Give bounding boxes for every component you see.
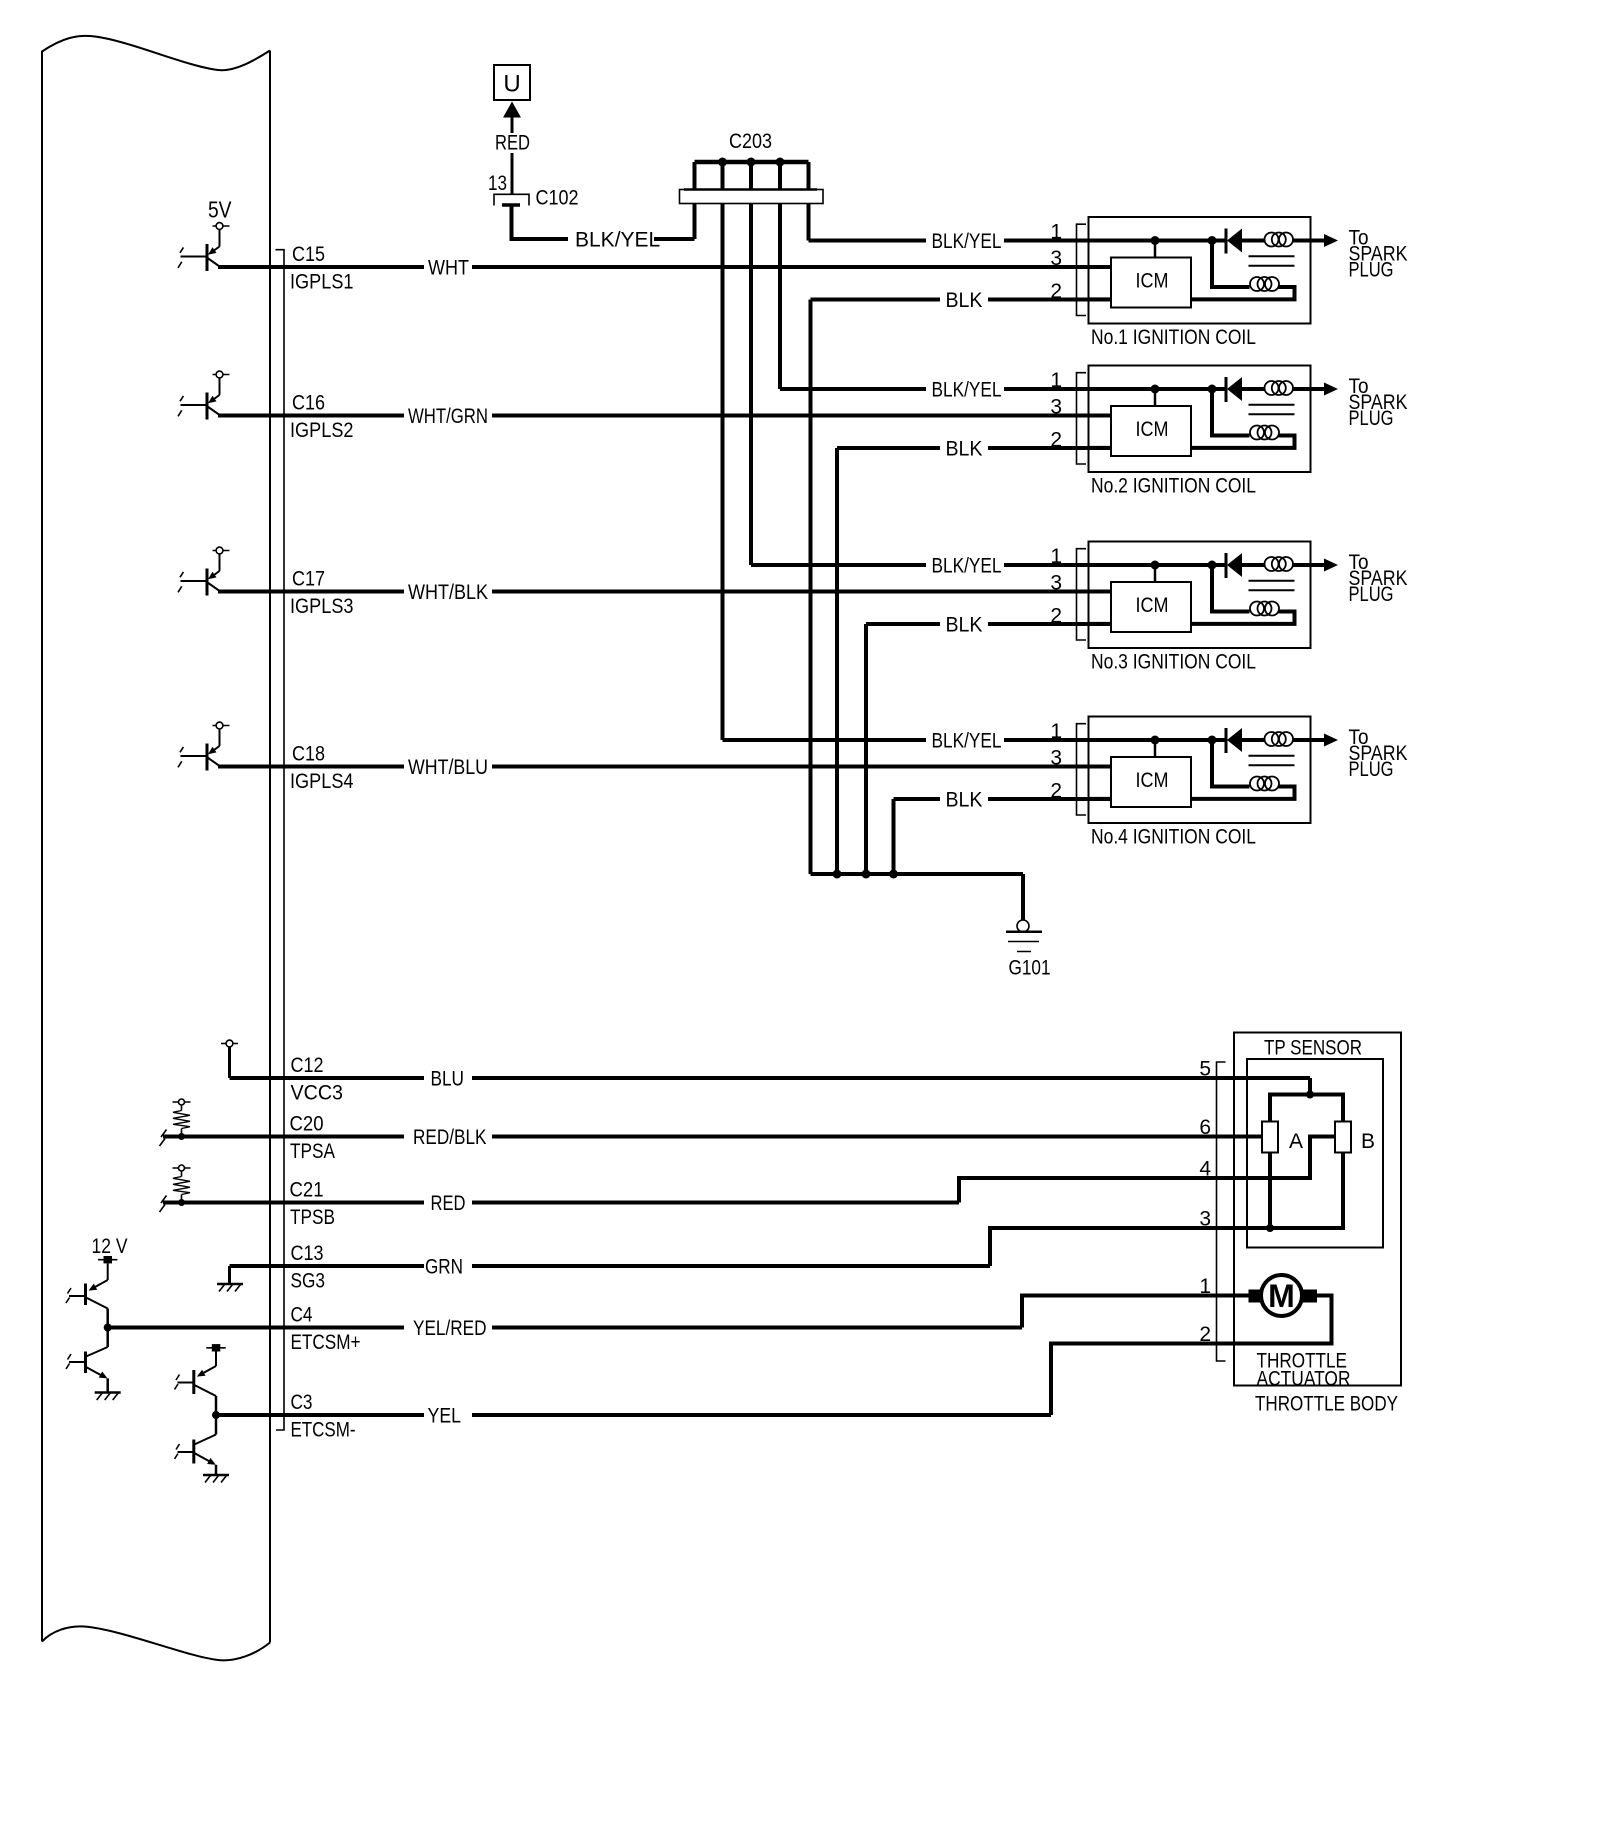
svg-text:6: 6	[1199, 1116, 1211, 1139]
wire BLK from No.3 coil pin 2	[866, 622, 940, 626]
wire WHT/BLK (C17 IGPLS3)	[218, 590, 404, 594]
transistor Q2 (IGPLS2 driver)	[178, 371, 230, 419]
wire WHT/GRN (C16 IGPLS2)	[218, 414, 404, 418]
transistor Q4 (IGPLS4 driver)	[178, 722, 230, 770]
wire BLK/YEL from C102 to C203	[512, 207, 569, 240]
wire feeder to No.2 coil	[778, 162, 782, 389]
svg-text:BLU: BLU	[431, 1068, 465, 1091]
svg-text:BLK: BLK	[946, 438, 983, 461]
svg-text:WHT/BLU: WHT/BLU	[408, 756, 488, 779]
wire BLK from No.1 coil pin 2	[811, 298, 941, 302]
throttle body outer box	[1234, 1033, 1401, 1386]
wire BLK/YEL to No.4 coil pin 1	[723, 738, 927, 742]
svg-text:C16: C16	[292, 392, 325, 415]
svg-text:BLK: BLK	[946, 614, 983, 637]
wire YEL (C3 ETCSM-)	[216, 1413, 424, 1417]
transistor Q6 (ETCSM+ low side)	[106, 1328, 109, 1348]
wire feeder to No.3 coil	[749, 162, 753, 565]
svg-text:C17: C17	[292, 568, 325, 591]
svg-text:WHT/GRN: WHT/GRN	[408, 405, 488, 428]
svg-text:1: 1	[1199, 1275, 1211, 1298]
wire RED (C21 TPSB)	[163, 1201, 424, 1205]
svg-text:RED: RED	[431, 1192, 466, 1215]
svg-text:M: M	[1268, 1278, 1295, 1314]
wire RED from U arrow	[511, 116, 514, 133]
BLK ground bus	[811, 872, 1024, 876]
svg-text:G101: G101	[1009, 957, 1051, 980]
transistor Q8 (ETCSM- low side)	[215, 1415, 218, 1435]
wire BLK/YEL to No.3 coil pin 1	[751, 563, 926, 567]
svg-text:C21: C21	[290, 1179, 324, 1202]
wire feeder to No.1 coil	[807, 162, 811, 241]
svg-text:BLK/YEL: BLK/YEL	[932, 379, 1002, 402]
wire WHT/BLU (C18 IGPLS4)	[218, 765, 404, 769]
TP sensor top net	[1308, 1078, 1312, 1095]
ECM connector body (torn-edge outline)	[42, 36, 270, 1661]
svg-text:C12: C12	[291, 1054, 324, 1077]
svg-text:TPSB: TPSB	[290, 1206, 335, 1229]
svg-text:No.3 IGNITION COIL: No.3 IGNITION COIL	[1091, 651, 1256, 674]
VCC terminal for C12	[221, 1040, 238, 1047]
svg-text:No.1 IGNITION COIL: No.1 IGNITION COIL	[1091, 326, 1256, 349]
svg-text:5V: 5V	[208, 197, 232, 223]
svg-text:C18: C18	[292, 743, 325, 766]
pull-up resistor R2 at C21	[160, 1165, 191, 1212]
svg-text:BLK/YEL: BLK/YEL	[932, 730, 1002, 753]
svg-text:4: 4	[1199, 1158, 1211, 1181]
wire BLK/YEL to No.1 coil pin 1	[809, 239, 927, 243]
resistor element B	[1335, 1122, 1351, 1153]
arrow to U	[503, 102, 521, 118]
ignition coil 2	[1050, 366, 1407, 473]
svg-text:YEL: YEL	[428, 1405, 462, 1428]
svg-text:C203: C203	[729, 130, 772, 153]
TP sensor inner box	[1247, 1059, 1383, 1248]
resistor element A	[1262, 1122, 1278, 1153]
ignition coil 1	[1050, 217, 1407, 324]
svg-text:BLK: BLK	[946, 789, 983, 812]
transistor Q7 (ETCSM- high side)	[215, 1352, 217, 1367]
wire riser left (BLK/YEL feed)	[693, 162, 697, 239]
12V terminal for Q7	[206, 1344, 225, 1351]
svg-text:THROTTLE BODY: THROTTLE BODY	[1255, 1393, 1398, 1416]
svg-text:RED/BLK: RED/BLK	[413, 1126, 487, 1149]
ground for Q8	[203, 1475, 229, 1483]
svg-text:13: 13	[488, 172, 507, 195]
wire BLK from No.4 coil pin 2	[894, 797, 941, 801]
wire BLK/YEL to No.2 coil pin 1	[780, 387, 926, 391]
svg-text:GRN: GRN	[425, 1256, 463, 1279]
wire feeder to No.4 coil	[721, 162, 725, 740]
node C203 top bus	[695, 160, 809, 165]
svg-text:BLK: BLK	[946, 289, 983, 312]
svg-text:IGPLS1: IGPLS1	[290, 271, 354, 294]
svg-text:U: U	[503, 71, 520, 98]
svg-text:RED: RED	[495, 132, 530, 155]
ignition coil 4	[1050, 717, 1407, 824]
ground for Q6	[95, 1393, 121, 1401]
ignition coil 3	[1050, 542, 1407, 649]
svg-text:WHT: WHT	[428, 257, 469, 280]
svg-text:VCC3: VCC3	[291, 1082, 344, 1105]
transistor Q5 (ETCSM+ high side)	[107, 1264, 109, 1281]
svg-text:IGPLS3: IGPLS3	[290, 595, 354, 618]
svg-text:C20: C20	[290, 1113, 324, 1136]
wire GRN (C13 SG3)	[230, 1264, 425, 1268]
svg-text:2: 2	[1199, 1323, 1211, 1346]
connector C102	[494, 194, 529, 205]
fuse box destination U	[494, 65, 530, 100]
ECM pin header bracket	[276, 250, 285, 1430]
transistor Q1 (IGPLS1 driver)	[178, 223, 230, 271]
svg-text:C15: C15	[292, 243, 325, 266]
wire WHT (C15 IGPLS1)	[218, 265, 424, 269]
wire YEL/RED (C4 ETCSM+)	[108, 1326, 404, 1330]
svg-text:YEL/RED: YEL/RED	[413, 1317, 487, 1340]
svg-text:ETCSM-: ETCSM-	[291, 1419, 356, 1442]
svg-text:3: 3	[1199, 1208, 1211, 1231]
throttle actuator motor M1	[1249, 1290, 1264, 1303]
connector C203	[680, 190, 824, 204]
svg-text:BLK/YEL: BLK/YEL	[932, 230, 1002, 253]
svg-text:TPSA: TPSA	[290, 1140, 335, 1163]
svg-text:BLK/YEL: BLK/YEL	[575, 229, 660, 252]
pull-up resistor R1 at C20	[160, 1099, 191, 1146]
junction node ETCSM+	[104, 1324, 112, 1332]
vertical A-to-pin3	[1268, 1153, 1272, 1229]
svg-text:BLK/YEL: BLK/YEL	[932, 555, 1002, 578]
svg-text:5: 5	[1199, 1058, 1211, 1081]
junction node ETCSM-	[212, 1411, 220, 1419]
svg-text:No.4 IGNITION COIL: No.4 IGNITION COIL	[1091, 826, 1256, 849]
ground G101	[1017, 920, 1029, 932]
transistor Q3 (IGPLS3 driver)	[178, 547, 230, 595]
svg-text:SG3: SG3	[291, 1270, 326, 1293]
svg-text:C102: C102	[536, 187, 579, 210]
svg-text:ETCSM+: ETCSM+	[291, 1331, 361, 1354]
svg-text:12 V: 12 V	[92, 1235, 128, 1258]
svg-text:C13: C13	[291, 1242, 324, 1265]
junction dots on C203 bus	[718, 158, 727, 167]
TP sensor pin bracket	[1217, 1062, 1226, 1361]
svg-text:ACTUATOR: ACTUATOR	[1257, 1368, 1351, 1391]
svg-text:No.2 IGNITION COIL: No.2 IGNITION COIL	[1091, 475, 1256, 498]
wire RED/BLK (C20 TPSA)	[163, 1135, 404, 1139]
svg-text:B: B	[1361, 1130, 1375, 1153]
wire BLK from No.2 coil pin 2	[837, 446, 940, 450]
svg-text:A: A	[1289, 1130, 1303, 1153]
sensor ground SG3	[228, 1266, 231, 1283]
wire BLU (C12 VCC3)	[230, 1076, 425, 1080]
svg-text:C3: C3	[291, 1391, 313, 1414]
12V terminal for Q5	[98, 1256, 117, 1263]
svg-text:TP SENSOR: TP SENSOR	[1264, 1037, 1362, 1060]
svg-text:C4: C4	[291, 1304, 313, 1327]
svg-text:IGPLS4: IGPLS4	[290, 770, 354, 793]
svg-text:WHT/BLK: WHT/BLK	[408, 581, 488, 604]
svg-text:IGPLS2: IGPLS2	[290, 419, 354, 442]
